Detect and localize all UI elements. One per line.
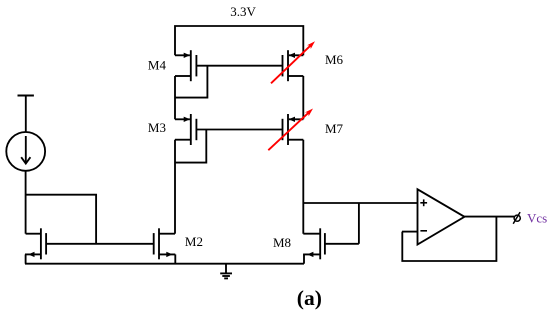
svg-text:Vcs: Vcs	[527, 210, 547, 225]
svg-text:3.3V: 3.3V	[230, 4, 256, 19]
svg-text:M2: M2	[185, 234, 203, 249]
svg-text:M7: M7	[325, 121, 344, 136]
svg-text:M6: M6	[325, 52, 344, 67]
svg-text:M3: M3	[148, 120, 166, 135]
svg-text:M8: M8	[273, 235, 291, 250]
svg-text:(a): (a)	[297, 286, 322, 310]
svg-text:M4: M4	[148, 58, 167, 73]
